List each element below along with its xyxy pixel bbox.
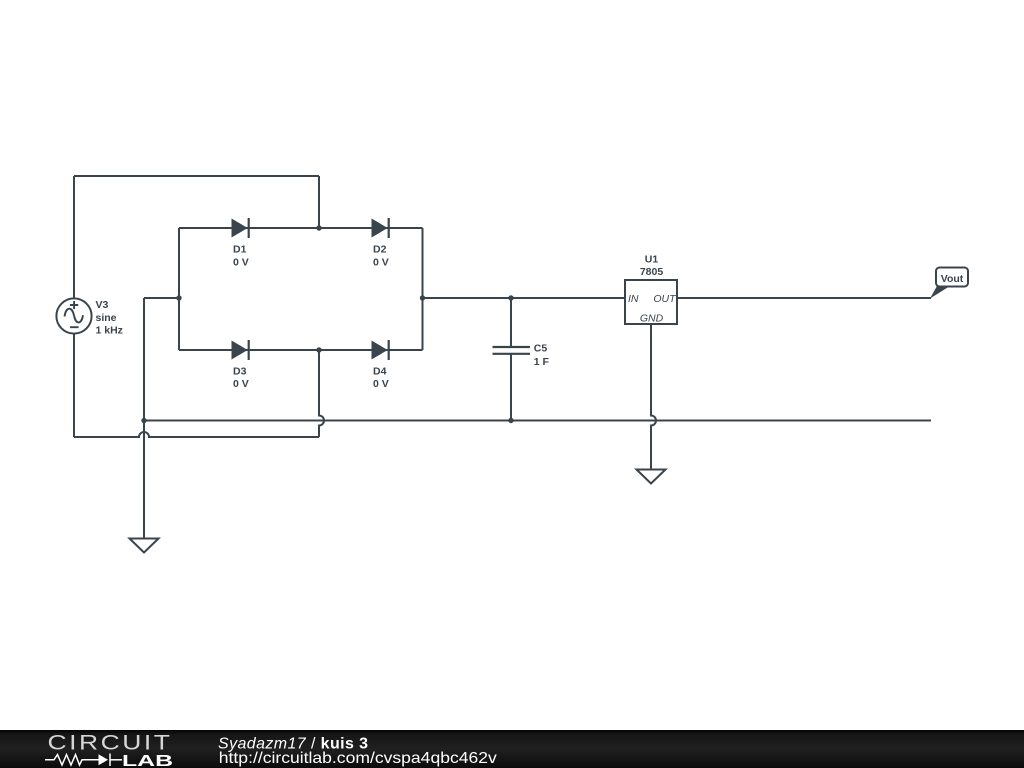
svg-text:1 kHz: 1 kHz (96, 325, 123, 337)
svg-text:LAB: LAB (122, 753, 173, 768)
wire C5 top lead (510, 298, 512, 347)
wire bridge bottom rail (179, 349, 423, 351)
svg-text:7805: 7805 (640, 266, 664, 278)
svg-text:D4: D4 (373, 366, 387, 378)
wire to ground left (143, 421, 145, 539)
svg-text:C5: C5 (534, 343, 548, 355)
svg-text:0 V: 0 V (373, 378, 389, 390)
svg-text:0 V: 0 V (233, 378, 249, 390)
wire left vertical to bottom node (143, 298, 145, 421)
capacitor C5 (493, 343, 550, 369)
wire top loop vertical drop (318, 176, 320, 228)
wire bridge top rail (179, 227, 423, 229)
wire mid rail bridge to U1 (423, 297, 626, 299)
junction left bottom node (141, 418, 146, 423)
svg-text:http://circuitlab.com/cvspa4qb: http://circuitlab.com/cvspa4qbc462v (219, 750, 497, 767)
wire bottom long rail (144, 420, 931, 422)
svg-text:0 V: 0 V (373, 257, 389, 269)
svg-text:D2: D2 (373, 244, 387, 256)
svg-text:D1: D1 (233, 244, 247, 256)
svg-text:GND: GND (640, 313, 664, 325)
svg-text:sine: sine (96, 312, 117, 324)
svg-text:1 F: 1 F (534, 356, 550, 368)
wire bridge left rail (178, 228, 180, 350)
diode D1 (232, 218, 249, 269)
wire U1 gnd lead with hop (651, 324, 656, 470)
wire V3 bottom lead (73, 334, 75, 437)
footer bar (0, 730, 1024, 768)
svg-text:Vout: Vout (941, 273, 964, 285)
svg-text:CIRCUIT: CIRCUIT (48, 732, 173, 755)
wire U1 out to Vout (677, 297, 931, 299)
voltage source V3 (56, 298, 123, 336)
svg-text:U1: U1 (645, 254, 659, 266)
wire top loop horizontal (74, 175, 319, 177)
wire V3 bottom horizontal with hop (74, 432, 319, 437)
ground left (130, 539, 159, 553)
ground under U1 (637, 470, 666, 484)
wire V3 top lead (73, 176, 75, 300)
junction C5 top node (508, 295, 513, 300)
diode D2 (372, 218, 389, 269)
wire C5 bottom lead (510, 354, 512, 421)
regulator U1 (625, 254, 677, 325)
wire bridge bottom to lower run with hop (319, 350, 324, 437)
svg-text:OUT: OUT (653, 293, 677, 305)
svg-text:D3: D3 (233, 366, 247, 378)
wire bridge right rail (422, 228, 424, 350)
diode D4 (372, 340, 389, 390)
junction bottom rail node (316, 347, 321, 352)
footer logo resistor-diode glyph (45, 754, 122, 767)
junction C5 bottom node (508, 418, 513, 423)
junction top rail node (316, 225, 321, 230)
wire left mid stub (144, 297, 179, 299)
svg-text:V3: V3 (96, 299, 109, 311)
svg-text:IN: IN (628, 293, 639, 305)
diode D3 (232, 340, 249, 390)
junction right mid node (420, 295, 425, 300)
node Vout flag (930, 268, 968, 299)
junction left mid node (176, 295, 181, 300)
svg-text:0 V: 0 V (233, 257, 249, 269)
